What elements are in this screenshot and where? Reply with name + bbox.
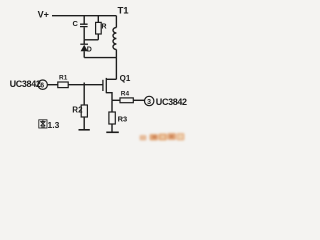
transistor Q1 channel plate [105,78,107,93]
svg-text:3: 3 [147,99,151,106]
figure caption 图 glyph [39,120,47,128]
ground (R2) [79,129,90,131]
wire drain node down to Q1 drain [115,58,117,80]
wire snubber resistor to junction [97,34,99,40]
pin 3 terminal circle [145,96,154,105]
wire source node to R4 [112,99,120,101]
transformer T1 winding bottom lead / drain node [115,50,117,58]
svg-text:1.3: 1.3 [48,120,60,130]
svg-text:UC3842: UC3842 [156,97,187,107]
resistor R2 [81,105,87,117]
svg-text:R2: R2 [72,105,83,114]
wire snubber resistor branch from V+ rail [97,16,99,23]
resistor R1 [58,82,68,88]
capacitor C [80,24,88,26]
diode D triangle [81,45,88,51]
svg-text:R3: R3 [118,114,128,123]
pin 6 terminal circle [38,80,47,89]
wire snubber to drain node horizontal [84,57,116,59]
watermark [140,133,185,141]
diode D cathode bar [80,43,88,45]
svg-text:T1: T1 [118,6,130,17]
svg-text:C: C [73,19,79,28]
wire junction to diode [83,40,85,44]
wire R2 to ground [83,117,85,130]
resistor R4 [120,98,133,103]
svg-text:R1: R1 [59,75,68,82]
wire junction C-R horizontal [84,39,98,41]
svg-text:R: R [102,24,107,31]
wire diode anode down [83,51,85,57]
resistor R (snubber) [96,22,102,34]
wire pin6 to R1 [47,84,58,86]
wire capacitor branch from V+ rail [83,16,85,24]
svg-text:V+: V+ [38,10,49,20]
wire R1 to gate [68,84,103,86]
transistor Q1 drain lead [106,78,116,80]
transistor Q1 gate plate [102,80,104,91]
transformer T1 primary winding top lead [115,16,117,28]
wire R4 to pin3 [133,99,144,101]
wire R3 to ground [111,124,113,132]
transformer T1 primary winding coil [113,28,116,50]
svg-text:R4: R4 [121,90,130,97]
resistor R3 [109,112,115,124]
node gate junction tick [83,83,85,85]
svg-text:UC3842: UC3842 [10,79,41,89]
svg-text:D: D [87,47,92,54]
wire V+ rail top [52,15,116,17]
wire gate node to R2 [83,85,85,105]
wire source node to R3 [111,100,113,112]
wire capacitor to junction [83,27,85,40]
ground (R3) [106,131,119,133]
svg-text:6: 6 [40,82,44,89]
svg-text:Q1: Q1 [120,74,131,83]
transistor Q1 source lead [106,93,112,101]
